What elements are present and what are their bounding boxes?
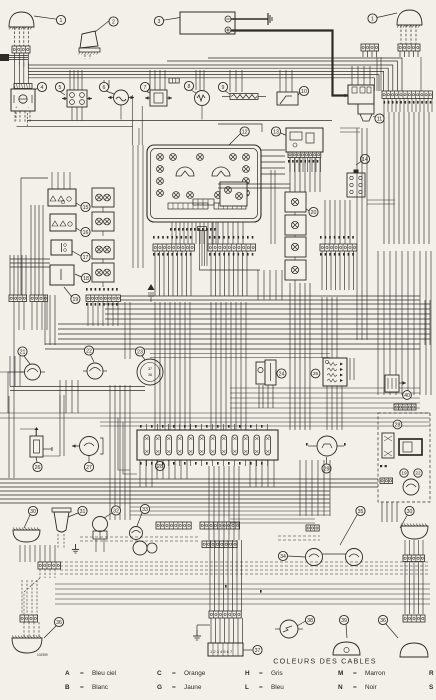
svg-text:36: 36 — [56, 620, 62, 626]
svg-text:16: 16 — [83, 230, 89, 236]
svg-text:Blanc: Blanc — [92, 684, 109, 691]
svg-text:Noir: Noir — [365, 684, 378, 691]
svg-text:=: = — [172, 670, 176, 677]
svg-text:12: 12 — [242, 129, 248, 135]
svg-text:34: 34 — [280, 554, 286, 560]
svg-text:6: 6 — [103, 85, 106, 91]
svg-text:Bleu ciel: Bleu ciel — [92, 670, 116, 677]
svg-text:R: R — [429, 670, 434, 677]
svg-text:38: 38 — [148, 373, 152, 377]
svg-text:COLEURS DES CABLES: COLEURS DES CABLES — [273, 657, 376, 666]
svg-text:18: 18 — [83, 276, 89, 282]
svg-text:13: 13 — [273, 129, 279, 135]
svg-text:37: 37 — [148, 367, 152, 371]
svg-text:5: 5 — [59, 85, 62, 91]
svg-text:17: 17 — [83, 255, 89, 261]
svg-text:32: 32 — [113, 508, 119, 514]
svg-text:B: B — [65, 684, 70, 691]
svg-text:19: 19 — [401, 471, 407, 477]
svg-text:1: 1 — [371, 16, 374, 22]
svg-text:Bleu: Bleu — [271, 684, 284, 691]
svg-text:=: = — [353, 684, 357, 691]
svg-text:Jaune: Jaune — [184, 684, 202, 691]
svg-text:20: 20 — [311, 210, 317, 216]
svg-text:35: 35 — [358, 509, 364, 515]
svg-text:4: 4 — [41, 85, 44, 91]
svg-text:=: = — [80, 684, 84, 691]
svg-text:N: N — [338, 684, 343, 691]
svg-text:=: = — [259, 670, 263, 677]
svg-text:40: 40 — [404, 393, 410, 399]
svg-text:26: 26 — [35, 465, 41, 471]
svg-text:25: 25 — [313, 371, 319, 377]
svg-text:A: A — [65, 670, 70, 677]
svg-text:1 2 3 4 5 6 7: 1 2 3 4 5 6 7 — [210, 649, 233, 654]
svg-text:21: 21 — [20, 349, 26, 355]
svg-text:=: = — [259, 684, 263, 691]
svg-text:Marron: Marron — [365, 670, 386, 677]
svg-text:29: 29 — [324, 466, 330, 472]
svg-text:H: H — [245, 670, 250, 677]
svg-text:33: 33 — [142, 507, 148, 513]
svg-text:15: 15 — [83, 205, 89, 211]
svg-text:37: 37 — [255, 648, 261, 654]
svg-text:=: = — [353, 670, 357, 677]
svg-text:11: 11 — [377, 116, 382, 122]
svg-text:23: 23 — [137, 349, 143, 355]
svg-text:=: = — [80, 670, 84, 677]
svg-text:7: 7 — [144, 85, 147, 91]
svg-text:M: M — [338, 670, 343, 677]
svg-text:=: = — [172, 684, 176, 691]
svg-text:22: 22 — [415, 471, 421, 477]
svg-text:S: S — [429, 684, 434, 691]
svg-text:24: 24 — [279, 371, 285, 377]
svg-text:30: 30 — [30, 509, 36, 515]
svg-text:9: 9 — [222, 85, 225, 91]
svg-text:102959: 102959 — [37, 653, 48, 657]
svg-text:22: 22 — [86, 348, 92, 354]
svg-text:Orange: Orange — [184, 670, 206, 677]
svg-text:28: 28 — [157, 464, 163, 470]
svg-text:3: 3 — [158, 19, 161, 25]
svg-text:8: 8 — [188, 84, 191, 90]
svg-text:L: L — [245, 684, 249, 691]
svg-text:Gris: Gris — [271, 670, 283, 677]
svg-text:1: 1 — [60, 18, 63, 24]
svg-text:36: 36 — [380, 618, 386, 624]
svg-text:30: 30 — [407, 509, 413, 515]
svg-text:19: 19 — [73, 297, 79, 303]
svg-text:2: 2 — [112, 19, 115, 25]
svg-text:G: G — [157, 684, 162, 691]
svg-text:39: 39 — [341, 618, 347, 624]
svg-text:38: 38 — [307, 618, 313, 624]
svg-text:C: C — [157, 670, 162, 677]
svg-text:10: 10 — [301, 89, 307, 95]
svg-text:27: 27 — [86, 465, 92, 471]
svg-text:28: 28 — [395, 422, 401, 428]
svg-text:31: 31 — [80, 509, 86, 515]
